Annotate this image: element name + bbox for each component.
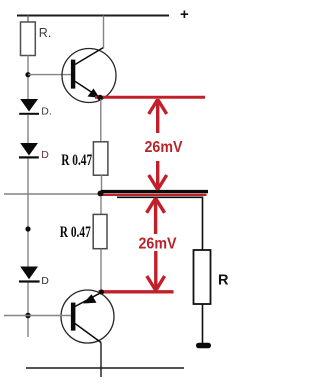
wire top rail to resistor R1 [27,16,29,23]
diode D3 [19,267,40,283]
svg-text:R 0.47: R 0.47 [61,152,92,169]
annotation arrow up (26mV lower) [147,198,165,234]
node emitter Q1 junction dot [97,95,103,101]
wire resistor R1 to node A [27,56,29,100]
red marker line under output level [100,194,207,196]
wire node A to base of Q1 [28,74,71,76]
svg-text:+: + [180,6,189,23]
node C junction dot (base of Q2 / diode chain) [25,313,31,319]
top supply rail wire [17,15,169,17]
transistor Q1 (NPN top) [62,48,116,103]
wire D3 to node C [27,283,29,338]
annotation arrow up (26mV upper) [149,99,167,133]
load resistor R4 (right) [194,250,211,304]
svg-text:R 0.47: R 0.47 [60,224,91,241]
resistor R3 (R 0.47 lower) [93,214,107,248]
wire resistor R2 to output node [101,175,103,196]
transistor Q2 (PNP bottom) [61,290,114,343]
wire load resistor to ground [202,304,204,343]
node output junction dot [98,191,104,197]
resistor R2 (R 0.47 upper) [93,142,108,175]
wire collector Q2 to bottom rail [100,343,102,378]
svg-text:D: D [41,275,49,287]
red marker line at Q2 emitter level [99,290,174,293]
wire collector Q1 to top rail [103,16,105,48]
svg-text:D: D [41,149,49,161]
wire output node to left (signal input) [4,193,100,195]
svg-text:R.: R. [39,26,52,40]
bottom rail wire [26,367,184,369]
svg-text:D.: D. [41,105,52,117]
annotation arrow down (26mV upper) [149,161,167,190]
diode D1 [19,99,39,115]
svg-text:26mV: 26mV [139,236,177,253]
red marker line at Q1 emitter level [95,96,205,99]
node A junction dot (base of Q1 / diode chain) [25,72,30,77]
node B junction dot (mid diode chain) [25,226,30,231]
svg-text:26mV: 26mV [145,139,183,156]
ground symbol [196,343,211,348]
wire D2 to node B [27,159,29,267]
svg-text:R: R [218,273,229,289]
thick black marker line at output node level [101,190,208,193]
wire emitter Q1 to resistor R2 [100,99,102,142]
wire resistor R3 to emitter Q2 [100,249,102,292]
node emitter Q2 junction dot [99,289,104,294]
resistor R1 (bias resistor, top left) [21,22,36,56]
wire output node to load resistor (thin) [117,197,203,250]
diode D2 [19,143,39,159]
wire output node to resistor R3 [100,196,102,215]
wire D1 to D2 [27,115,29,144]
annotation arrow down (26mV lower) [147,251,165,291]
wire base Q2 to left (signal input) [4,315,71,317]
